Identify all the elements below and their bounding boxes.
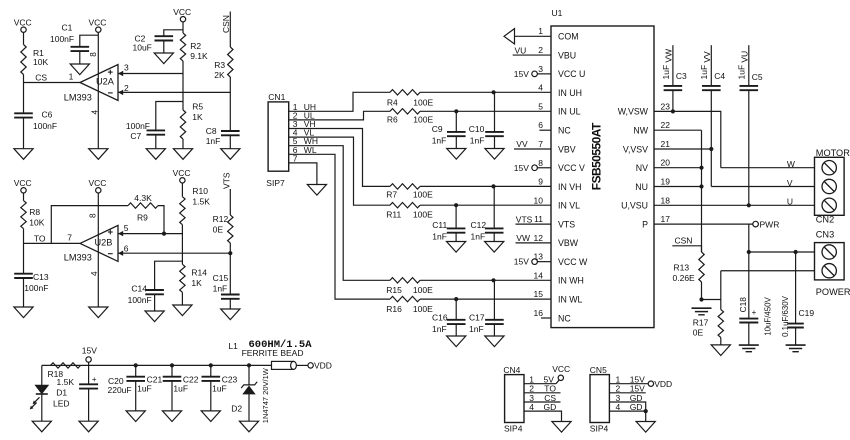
junction (NU / NW vertical): [699, 184, 703, 188]
wire C10 lead (crosses IN UL line): [494, 92, 496, 132]
power VCC (U2B pin 8): [96, 188, 101, 193]
power VCC (R8 pull-up): [21, 188, 26, 193]
wire U1 pin 20 NV: [654, 167, 702, 169]
junction (R13 / ground / R17 branch): [699, 297, 703, 301]
wire C6 to ground: [23, 118, 25, 149]
svg-text:8: 8: [89, 213, 98, 218]
resistor R10: [180, 197, 185, 225]
svg-text:21: 21: [661, 139, 671, 149]
svg-text:C16: C16: [432, 313, 448, 323]
net stub VV (pin 7): [514, 148, 551, 150]
svg-text:1nF: 1nF: [213, 284, 228, 294]
svg-text:4: 4: [529, 402, 534, 412]
svg-text:10K: 10K: [33, 57, 48, 67]
net stub VW (pin 12): [516, 242, 552, 244]
svg-text:LM393: LM393: [64, 92, 92, 102]
wire CN4 pin2 TO stub: [524, 392, 561, 394]
svg-text:1uF: 1uF: [212, 384, 227, 394]
junction (C16 / IN WL line): [454, 297, 458, 301]
svg-text:5: 5: [124, 223, 129, 233]
svg-text:10uF: 10uF: [133, 43, 152, 53]
ground (R5): [173, 149, 192, 160]
ground (C10): [485, 149, 504, 160]
svg-text:1.5K: 1.5K: [192, 196, 210, 206]
wire C4 to pin 21: [710, 90, 712, 149]
wire U1 pin 19 NU: [654, 186, 702, 188]
svg-text:1uF: 1uF: [737, 65, 747, 80]
ground (R14): [173, 305, 192, 316]
svg-text:R11: R11: [386, 209, 401, 219]
svg-text:VBW: VBW: [558, 238, 579, 248]
resistor R15: [390, 278, 420, 283]
wire U1 pin 23 W,VSW: [654, 111, 721, 167]
U2A plus input mark: [108, 71, 113, 73]
svg-text:22: 22: [661, 120, 671, 130]
svg-text:100E: 100E: [413, 304, 433, 314]
svg-text:2K: 2K: [214, 70, 225, 80]
ground (CN5): [636, 422, 655, 433]
wire C14 to R14 top: [155, 261, 183, 290]
wire CN1 pin3 VH to R7: [289, 129, 390, 187]
wire CN1 pin5 WH to R15: [289, 146, 390, 281]
capacitor C14: [145, 289, 164, 291]
wire C7 to ground: [155, 135, 157, 149]
svg-text:R3: R3: [214, 60, 225, 70]
CN3 screw terminal -: [822, 264, 836, 278]
wire NW node to R13: [701, 246, 703, 252]
svg-text:VCC: VCC: [14, 18, 32, 28]
wire DC- to R17: [720, 271, 722, 310]
svg-text:10K: 10K: [29, 217, 44, 227]
ground (C12): [485, 242, 504, 253]
wire R12 to pin 6 line: [229, 243, 231, 253]
wire C17 to ground: [493, 324, 495, 336]
LED D1: [35, 385, 48, 393]
VCC terminal (CN4): [558, 375, 563, 380]
power VCC (U2A pin 8): [96, 27, 101, 32]
svg-text:C6: C6: [42, 110, 53, 120]
svg-text:7: 7: [67, 232, 72, 242]
svg-text:4.3K: 4.3K: [134, 193, 152, 203]
svg-text:C9: C9: [432, 124, 443, 134]
wire C19 to ground: [795, 328, 797, 345]
wire rail to C23: [210, 365, 212, 376]
svg-text:LED: LED: [53, 399, 70, 409]
svg-text:23: 23: [661, 101, 671, 111]
wire C22 to ground: [171, 381, 173, 411]
svg-text:GD: GD: [630, 402, 643, 412]
svg-text:0.26E: 0.26E: [673, 273, 696, 283]
svg-text:17: 17: [661, 214, 671, 224]
wire C10 to ground: [494, 136, 496, 148]
svg-text:0.1uF/630V: 0.1uF/630V: [781, 295, 790, 337]
svg-text:15V: 15V: [514, 257, 529, 267]
svg-text:C11: C11: [432, 220, 447, 230]
svg-text:100nF: 100nF: [128, 295, 152, 305]
svg-text:NC: NC: [558, 313, 571, 323]
junction (C23 / rail): [209, 363, 213, 367]
svg-text:100nF: 100nF: [33, 121, 57, 131]
svg-text:NW: NW: [633, 126, 648, 136]
resistor R9 (feedback): [128, 203, 158, 208]
svg-text:VCC W: VCC W: [558, 257, 588, 267]
junction (NV / NW vertical): [699, 166, 703, 170]
svg-text:1nF: 1nF: [432, 232, 447, 242]
svg-text:9: 9: [538, 177, 543, 187]
resistor R14: [180, 264, 185, 292]
wire C2 to VCC rail: [164, 30, 183, 36]
ground (C9): [447, 149, 466, 160]
svg-text:TO: TO: [34, 233, 46, 243]
svg-text:SIP7: SIP7: [266, 178, 285, 188]
capacitor C8: [221, 130, 240, 132]
svg-text:1uF: 1uF: [661, 65, 671, 80]
op-amp U2B: [80, 225, 118, 261]
capacitor C19: [787, 323, 803, 325]
wire D1 to ground: [41, 394, 43, 421]
capacitor C5 top lead: [748, 45, 750, 86]
capacitor C12: [485, 227, 504, 229]
capacitor C23: [202, 376, 221, 378]
wire R9 to pin 5 line: [158, 206, 164, 234]
wire C23 to ground: [210, 381, 212, 411]
svg-text:1nF: 1nF: [432, 324, 447, 334]
15V terminal: [86, 357, 91, 362]
ground (CN4): [552, 422, 571, 433]
svg-text:VBU: VBU: [558, 50, 576, 60]
wire CN1 pin4 VL to R11: [289, 137, 390, 205]
capacitor C10: [485, 131, 504, 133]
wire U2B pin 6 to R12/C15: [118, 252, 230, 254]
wire C17 lead (crosses IN WL line): [493, 280, 495, 320]
svg-text:100nF: 100nF: [50, 34, 74, 44]
wire CN1 pin6 WL to R16: [289, 154, 390, 299]
ground (C23): [201, 411, 220, 422]
svg-text:1K: 1K: [191, 278, 202, 288]
wire L1 to VDD: [296, 364, 308, 366]
wire CN4 pin3 CS stub: [524, 401, 561, 403]
wire CN5 pin2 15V stub: [609, 392, 645, 394]
wire U1 pin 22 NW: [654, 129, 702, 131]
wire R3 to pin2 line / C8: [229, 77, 231, 131]
svg-text:P: P: [642, 219, 648, 229]
capacitor C5: [740, 85, 759, 87]
svg-text:3: 3: [538, 64, 543, 74]
svg-text:VU: VU: [739, 51, 749, 63]
ground (C20): [79, 421, 98, 432]
wire U2B pin 5 line: [118, 233, 182, 235]
svg-text:12: 12: [534, 233, 544, 243]
svg-text:1uF: 1uF: [173, 384, 188, 394]
svg-text:+: +: [92, 375, 97, 384]
wire C20 to ground: [88, 389, 90, 422]
wire CN1 pin7 to ground: [289, 163, 317, 185]
resistor R16: [390, 296, 420, 301]
svg-text:U1: U1: [552, 8, 563, 18]
wire R17 to ground: [720, 338, 722, 345]
wire DC+ bus: [749, 251, 815, 253]
svg-text:VV: VV: [702, 51, 712, 63]
wire C16 to ground: [455, 324, 457, 336]
capacitor C22: [163, 376, 182, 378]
resistor R18: [51, 363, 81, 368]
wire C18 to ground: [748, 323, 750, 345]
svg-text:SIP4: SIP4: [590, 423, 609, 433]
capacitor C13: [14, 273, 33, 275]
svg-text:R2: R2: [190, 41, 201, 51]
svg-text:FERRITE BEAD: FERRITE BEAD: [242, 348, 304, 358]
svg-text:15V: 15V: [514, 69, 529, 79]
svg-text:IN WL: IN WL: [558, 295, 583, 305]
terminal VDD: [308, 363, 313, 368]
wire CN1 pin1 UH to R4: [289, 92, 390, 111]
connector CN4: [505, 375, 524, 423]
svg-text:C5: C5: [752, 72, 763, 82]
wire R6 to U1 pin 5 IN UL: [420, 110, 551, 112]
svg-text:R5: R5: [192, 102, 203, 112]
terminal PWR: [753, 221, 759, 227]
svg-text:+: +: [752, 308, 757, 317]
power VCC (R2): [180, 17, 185, 22]
wire C12 to ground: [493, 233, 495, 242]
capacitor C9: [447, 131, 466, 133]
power VCC (R10): [180, 178, 185, 183]
wire V phase to motor: [711, 186, 814, 188]
ground (C7): [146, 149, 165, 160]
svg-text:11: 11: [534, 214, 543, 224]
capacitor C11: [447, 227, 466, 229]
svg-text:1uF: 1uF: [699, 65, 709, 80]
resistor R1: [21, 45, 26, 75]
svg-text:5: 5: [538, 101, 543, 111]
svg-text:100E: 100E: [413, 114, 433, 124]
capacitor C16: [447, 319, 466, 321]
svg-text:R9: R9: [137, 213, 148, 223]
wire CN4 pin4 to ground: [524, 411, 562, 421]
svg-text:L1: L1: [228, 341, 238, 351]
wire U1 pin 21 V,VSV: [654, 149, 711, 187]
ground (C21): [126, 411, 145, 422]
svg-text:IN VH: IN VH: [558, 182, 581, 192]
svg-text:100E: 100E: [413, 190, 433, 200]
wire TO to U2B output pin 7: [24, 242, 81, 244]
junction (D2 / rail): [247, 363, 251, 367]
U2B plus input mark: [108, 231, 113, 233]
junction (C22 / rail): [170, 363, 174, 367]
wire U2A pin 2 to R3/C8 divider: [118, 91, 230, 93]
D1 emission arrows: [34, 397, 40, 403]
svg-text:VW: VW: [516, 233, 530, 243]
CN3 screw terminal +: [822, 245, 836, 259]
svg-text:U2A: U2A: [96, 77, 115, 87]
svg-text:100E: 100E: [413, 285, 433, 295]
svg-text:C19: C19: [799, 308, 815, 318]
15V terminal (pin 13): [532, 259, 538, 265]
svg-text:W,VSW: W,VSW: [618, 107, 649, 117]
ground (D2): [239, 421, 258, 432]
wire R5 to ground: [182, 139, 184, 149]
wire DC- return: [721, 270, 815, 272]
IC U1 body: [551, 26, 654, 328]
junction (DC+ / C19): [794, 250, 798, 254]
wire C13 to ground: [23, 278, 25, 307]
wire C7 to R5 top: [156, 102, 183, 131]
svg-text:VW: VW: [664, 49, 674, 63]
junction (C17 / IN WH line): [491, 278, 495, 282]
svg-text:MOTOR: MOTOR: [816, 148, 850, 158]
wire R10 to R14: [181, 225, 183, 265]
svg-text:VCC: VCC: [552, 364, 570, 374]
svg-text:1nF: 1nF: [471, 232, 486, 242]
wire C14 to ground: [154, 294, 156, 311]
CN2 screw terminal V: [822, 179, 836, 193]
junction (C3 / W,VSW): [671, 109, 675, 113]
capacitor C4: [702, 85, 721, 87]
svg-text:NU: NU: [635, 182, 648, 192]
wire CN1 pin2 UL to R6: [289, 111, 390, 120]
wire C19 lead (crosses DC-): [795, 252, 797, 324]
wire R16 to U1 pin 15 IN WL: [420, 298, 551, 300]
capacitor C4 top lead: [710, 45, 712, 86]
U2B minus input mark: [108, 253, 113, 255]
svg-text:COM: COM: [558, 32, 579, 42]
svg-text:U,VSU: U,VSU: [621, 201, 648, 211]
svg-text:2: 2: [124, 83, 129, 93]
svg-text:4: 4: [616, 402, 621, 412]
wire R11 to U1 pin 10 IN VL: [420, 204, 551, 206]
svg-text:IN UL: IN UL: [558, 107, 581, 117]
svg-text:C1: C1: [62, 22, 73, 32]
svg-text:GD: GD: [544, 402, 557, 412]
wire CN4 pin1 to VCC: [524, 383, 556, 385]
wire pin6 node to C15: [229, 253, 231, 294]
svg-text:4: 4: [90, 271, 99, 276]
net stub VTS (pin 11): [516, 223, 552, 225]
ground (U2A pin 4): [89, 149, 108, 160]
wire C12 lead (crosses IN VL line): [493, 186, 495, 228]
svg-text:CN3: CN3: [816, 230, 834, 240]
resistor R4: [390, 90, 420, 95]
wire rail to D1: [41, 365, 43, 385]
wire U2A pin 4 to ground: [97, 101, 99, 149]
svg-text:POWER: POWER: [816, 287, 850, 297]
resistor R17: [718, 310, 723, 338]
svg-text:VTS: VTS: [558, 219, 575, 229]
U2B pin 6 input arrow: [118, 251, 123, 256]
capacitor C6: [14, 112, 33, 114]
junction (R9 feedback / pin5): [162, 232, 166, 236]
ground (U2B pin 4): [89, 307, 108, 318]
wire NW vertical to shunt: [701, 130, 703, 252]
svg-text:9.1K: 9.1K: [190, 51, 208, 61]
junction (C10 / IN UH line): [492, 90, 496, 94]
wire C16 lead: [455, 299, 457, 320]
svg-text:VCC U: VCC U: [558, 69, 585, 79]
ferrite bead L1: [272, 361, 294, 369]
svg-text:4: 4: [538, 83, 543, 93]
CN2 screw terminal W: [822, 161, 836, 175]
terminal VDD (CN5): [648, 381, 653, 386]
svg-text:R14: R14: [191, 267, 207, 277]
svg-text:15V: 15V: [514, 163, 529, 173]
svg-text:VDD: VDD: [314, 361, 332, 371]
svg-text:R7: R7: [386, 190, 397, 200]
ground (C11): [447, 242, 466, 253]
capacitor C18 (bulk electrolytic): [739, 318, 758, 320]
junction (CN5 pin3/pin4 ground): [644, 409, 648, 413]
svg-text:220uF: 220uF: [108, 385, 132, 395]
wire rail to D2: [248, 365, 250, 385]
svg-text:0E: 0E: [213, 225, 224, 235]
svg-text:1nF: 1nF: [469, 324, 484, 334]
wire U1 pin 18 U,VSU to motor: [654, 204, 815, 206]
wire C2 to ground: [163, 41, 165, 54]
resistor R6: [390, 109, 420, 114]
U2B pin 5 input arrow: [118, 231, 123, 236]
NC stub (pin 6): [539, 129, 551, 131]
wire rail to C20: [88, 365, 90, 384]
svg-text:IN VL: IN VL: [558, 201, 580, 211]
wire C11 to ground: [455, 233, 457, 242]
capacitor C15: [221, 294, 240, 296]
svg-text:1nF: 1nF: [432, 136, 447, 146]
earth ground (R13): [692, 307, 712, 309]
resistor R5: [180, 110, 185, 139]
earth ground (C19): [786, 344, 806, 346]
wire R4 to U1 pin 4 IN UH: [420, 91, 551, 93]
ground (C14): [145, 311, 164, 322]
svg-text:VCC: VCC: [173, 168, 191, 178]
svg-text:13: 13: [534, 252, 544, 262]
feedback wire to R9: [51, 206, 128, 244]
net stub VU (pin 2): [513, 54, 551, 56]
wire CN5 pin1 to VDD: [609, 383, 648, 385]
junction (C21 / rail): [134, 363, 138, 367]
svg-text:100nF: 100nF: [24, 283, 48, 293]
wire C11 lead: [455, 205, 457, 228]
resistor R2: [180, 33, 185, 61]
svg-text:R13: R13: [674, 262, 690, 272]
wire R8 to C13 (TO node): [23, 229, 25, 274]
svg-text:FSB50550AT: FSB50550AT: [589, 122, 603, 190]
wire CN5 pin4 to ground: [609, 411, 645, 421]
wire rail to C21: [135, 365, 137, 376]
wire C1 to ground: [79, 51, 81, 64]
svg-text:PWR: PWR: [760, 219, 780, 229]
wire VTS to R12: [229, 189, 231, 215]
svg-text:C8: C8: [206, 126, 217, 136]
svg-text:VBV: VBV: [558, 144, 576, 154]
capacitor C21: [126, 376, 145, 378]
svg-text:10: 10: [534, 195, 544, 205]
zener diode D2: [241, 382, 257, 388]
svg-text:15: 15: [534, 289, 544, 299]
wire C1 to VCC rail: [80, 35, 99, 47]
junction (C5 / U,VSU): [747, 203, 751, 207]
wire C3 to pin 23: [672, 90, 674, 111]
wire R1 to C6 (CS node): [23, 75, 25, 114]
svg-text:3: 3: [124, 63, 129, 73]
wire R2 to R5 (crosses pin2 line): [182, 61, 184, 110]
wire C9 to ground: [455, 136, 457, 148]
resistor R8: [21, 201, 26, 229]
svg-text:CS: CS: [35, 73, 47, 83]
svg-text:R16: R16: [386, 304, 402, 314]
capacitor C20 (polarized): [79, 383, 98, 385]
junction (DC+ / C18): [747, 250, 751, 254]
svg-text:1nF: 1nF: [470, 136, 485, 146]
wire C9 lead: [455, 111, 457, 132]
